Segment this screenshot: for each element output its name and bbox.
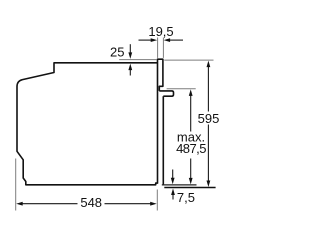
extension line 595 top [164, 59, 213, 61]
extension line 548 right [156, 190, 158, 211]
svg-text:595: 595 [198, 111, 220, 126]
dimension 19,5 [139, 24, 184, 42]
door bottom edge line [162, 184, 197, 186]
dimension 7,5 [171, 170, 195, 205]
extension tick frame top (25 ref) [119, 59, 157, 61]
extension line 487,5 top [167, 88, 196, 90]
door front face [162, 96, 164, 184]
front frame and door [158, 59, 163, 183]
oven body outline [17, 63, 158, 185]
dimension max. 487,5 [176, 89, 206, 184]
dimension 595 [198, 61, 220, 187]
dimension 548 [16, 195, 157, 210]
extension line 19,5 right [162, 38, 164, 58]
svg-text:548: 548 [80, 195, 102, 210]
door handle [159, 91, 173, 96]
svg-text:25: 25 [110, 44, 124, 59]
svg-text:7,5: 7,5 [177, 190, 195, 205]
lower bottom edge line (7,5 offset) [164, 187, 215, 189]
extension line 19,5 left [157, 38, 159, 58]
svg-text:19,5: 19,5 [148, 24, 173, 39]
dimension 25 [110, 44, 132, 75]
extension line 548 left [15, 159, 17, 211]
svg-text:487,5: 487,5 [176, 141, 206, 156]
